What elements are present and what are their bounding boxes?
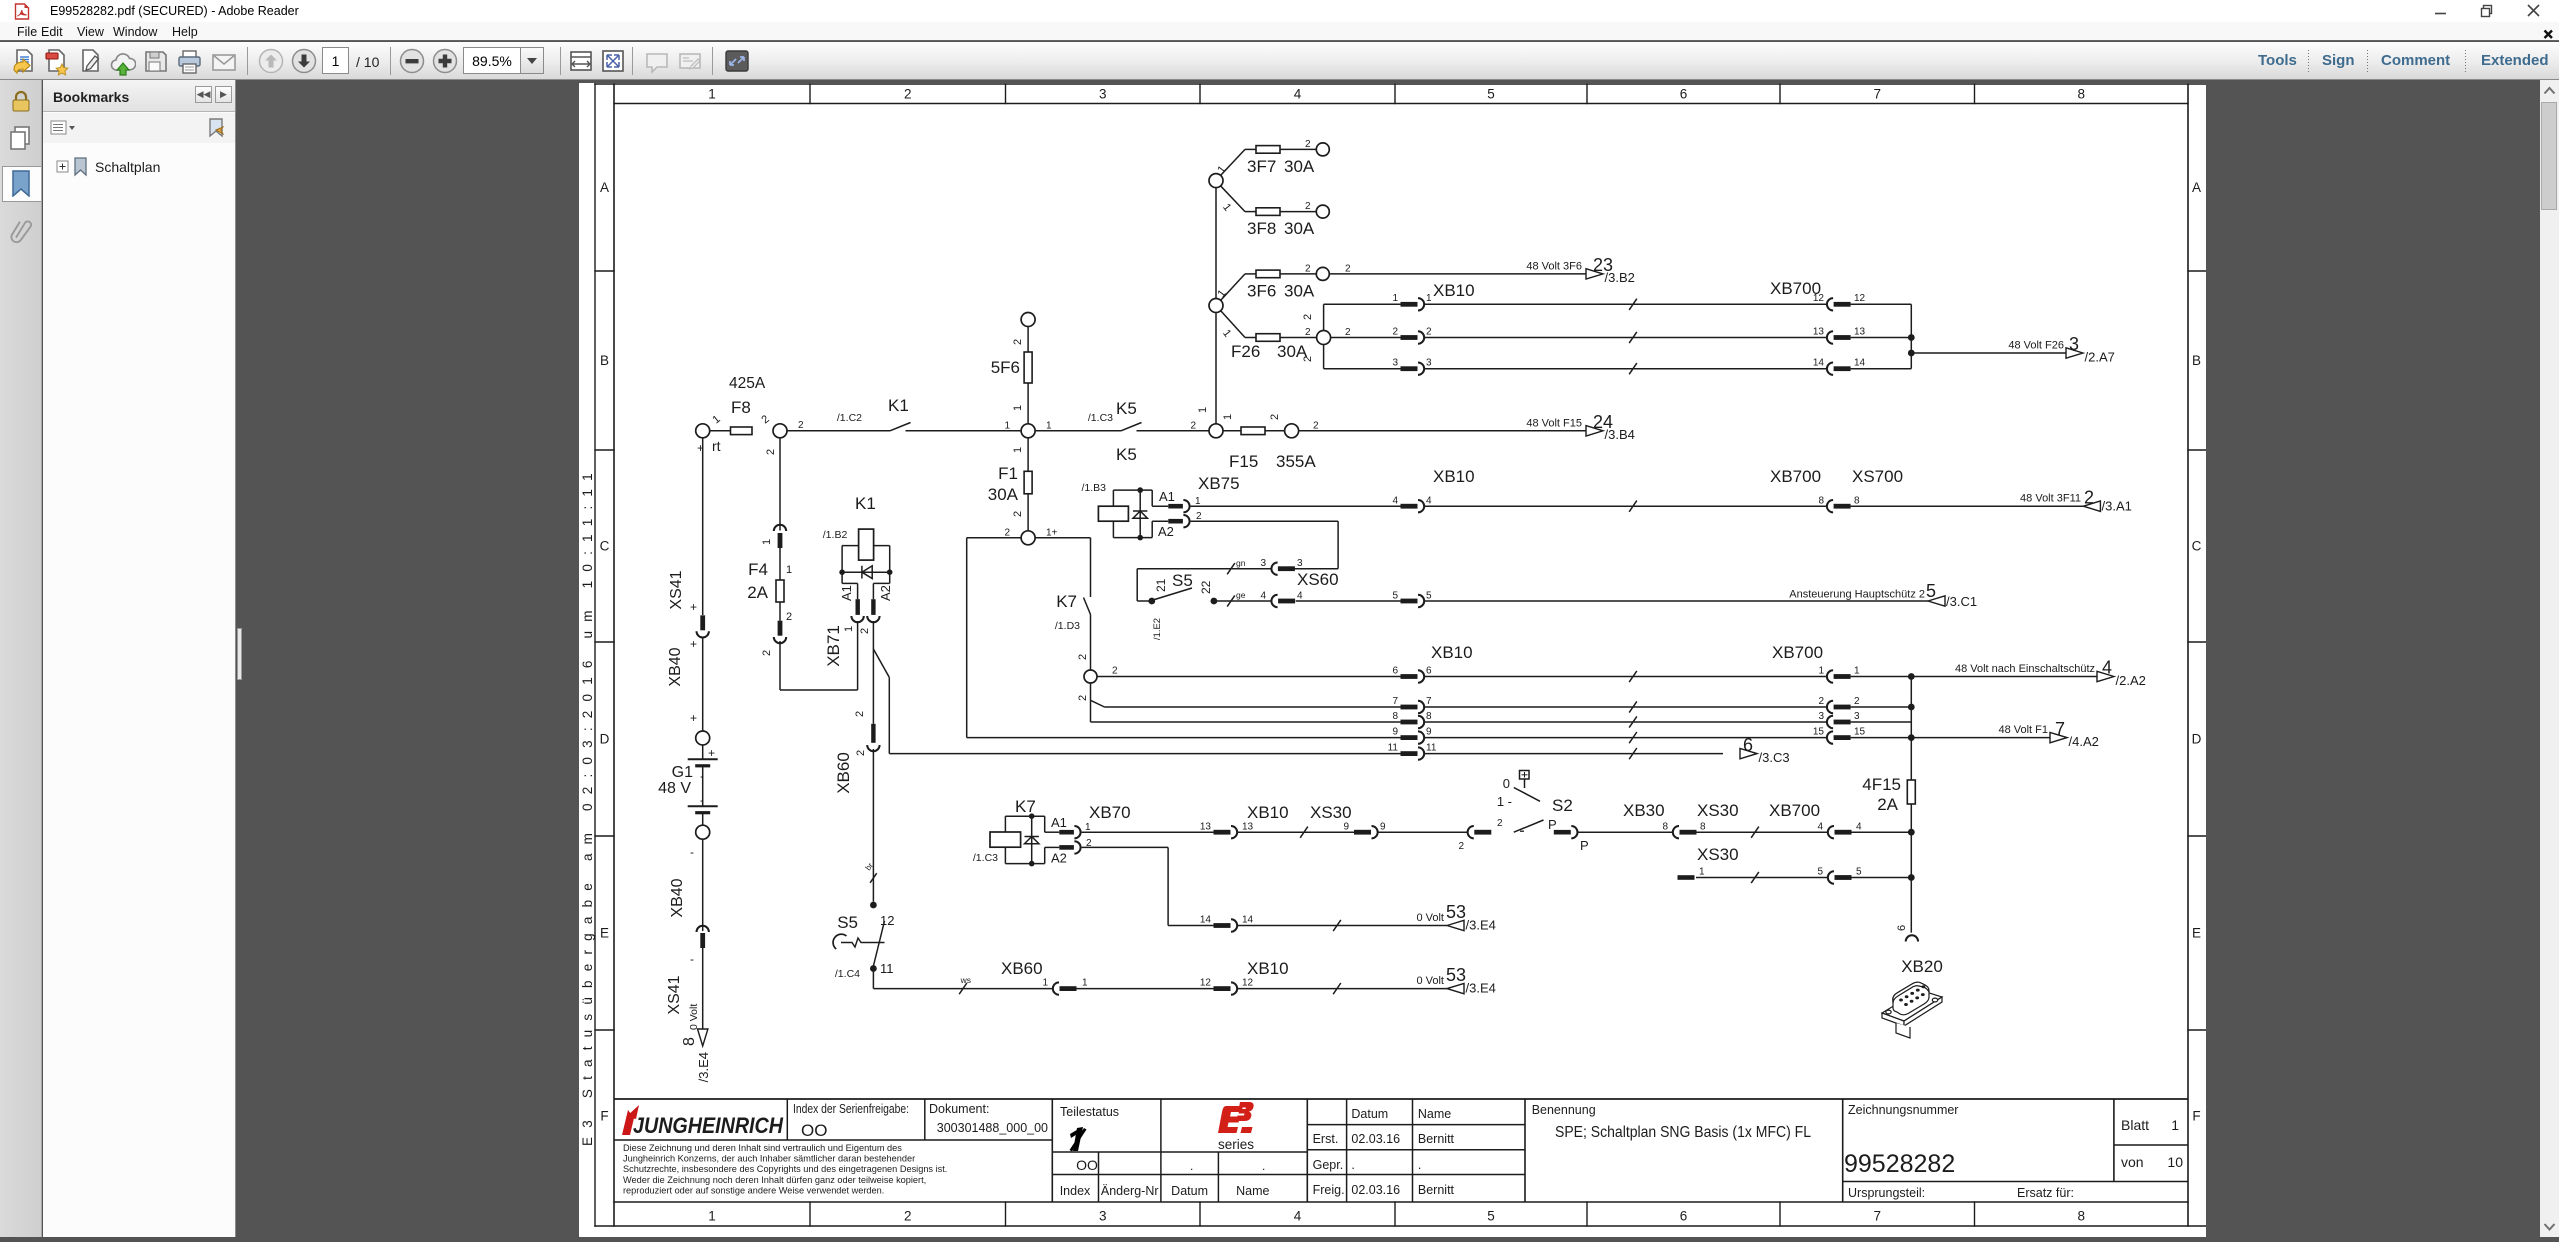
svg-text:1: 1: [1004, 420, 1010, 431]
svg-text:S5: S5: [837, 913, 858, 932]
svg-text:1: 1: [1085, 822, 1091, 833]
svg-text:B: B: [600, 353, 609, 368]
wire - XB71 pin2 split to XB60 chain and row 11: [872, 621, 874, 724]
svg-text:2: 2: [1426, 326, 1432, 337]
svg-text:425A: 425A: [729, 375, 766, 392]
wire - main line to K1 contact: [787, 430, 890, 432]
svg-text:2: 2: [1302, 356, 1314, 362]
svg-text:XB71: XB71: [824, 625, 843, 667]
svg-text:A1: A1: [1159, 489, 1175, 504]
menu bar: [0, 22, 2559, 41]
node - junction on row 6: [1084, 670, 1097, 683]
fuse 3F8 30A with terminal: [1245, 211, 1256, 213]
diode across K7 coil: [1031, 816, 1033, 863]
svg-text:C: C: [600, 539, 610, 554]
svg-text:Datum: Datum: [1171, 1184, 1208, 1198]
svg-text:2: 2: [1818, 696, 1824, 707]
svg-text:11: 11: [880, 961, 894, 976]
svg-text:E: E: [600, 926, 609, 941]
terminal - battery - pole: [696, 825, 710, 839]
svg-text:XS41: XS41: [668, 570, 685, 609]
svg-text:1 -: 1 -: [1497, 794, 1512, 809]
svg-text:2: 2: [761, 650, 773, 656]
svg-text:3: 3: [1854, 711, 1860, 722]
svg-text:XB10: XB10: [1433, 281, 1475, 300]
svg-text:9: 9: [1426, 726, 1432, 737]
bookmarks panel: [43, 80, 236, 1237]
svg-text:53: 53: [1446, 902, 1466, 922]
svg-text:1: 1: [1854, 665, 1860, 676]
svg-text:5F6: 5F6: [991, 358, 1020, 377]
terminal - 5F6 top circle: [1021, 313, 1035, 327]
svg-text:XB70: XB70: [1089, 803, 1131, 822]
svg-text:/1.B3: /1.B3: [1081, 482, 1106, 494]
svg-text:K7: K7: [1015, 797, 1036, 816]
wire - down to S5 with br colour slash: [872, 749, 874, 902]
window title bar: [0, 0, 2559, 22]
svg-text:48 Volt F26: 48 Volt F26: [2008, 340, 2064, 352]
svg-text:48 Volt 3F11: 48 Volt 3F11: [2020, 493, 2081, 505]
svg-text:1+: 1+: [1046, 527, 1058, 538]
svg-text:XB40: XB40: [669, 878, 686, 917]
wire - row 5 to XB10 pin 5: [1296, 600, 1401, 602]
svg-text:A2: A2: [878, 585, 893, 601]
svg-text:1: 1: [1220, 201, 1233, 213]
svg-text:Name: Name: [1418, 1107, 1451, 1121]
svg-text:10: 10: [2167, 1154, 2183, 1170]
svg-text:gn: gn: [1236, 558, 1246, 568]
svg-text:XS30: XS30: [1310, 803, 1352, 822]
svg-text:/1.C4: /1.C4: [835, 968, 860, 980]
svg-text:2: 2: [854, 711, 866, 717]
svg-text:XB20: XB20: [1901, 957, 1943, 976]
svg-text:2: 2: [1077, 695, 1089, 701]
svg-text:1: 1: [1046, 420, 1052, 431]
svg-text:2: 2: [1345, 264, 1351, 275]
svg-text:1: 1: [1082, 978, 1088, 989]
svg-text:1: 1: [1012, 405, 1024, 411]
svg-text:A1: A1: [839, 585, 854, 601]
node - junction with fuse 5F6 branch: [1021, 424, 1035, 438]
wire - row 6 to XB10 pin 6: [1097, 676, 1401, 678]
svg-text:+: +: [708, 746, 715, 760]
svg-text:/1.C2: /1.C2: [837, 412, 862, 424]
svg-text:12: 12: [880, 913, 894, 928]
svg-text:13: 13: [1854, 326, 1866, 337]
svg-text:A1: A1: [1051, 815, 1067, 830]
svg-text:2: 2: [1269, 414, 1281, 420]
svg-text:12: 12: [1242, 978, 1254, 989]
wire - net 48 Volt nach Einschaltschuetz to /2.A2: [1911, 676, 2097, 678]
svg-text:1: 1: [1197, 407, 1209, 413]
wire - to battery: [702, 637, 704, 731]
svg-text:2: 2: [1190, 420, 1196, 431]
svg-text:30A: 30A: [988, 485, 1019, 504]
right scrollbar: [2540, 80, 2559, 1237]
svg-text:-: -: [700, 793, 704, 807]
svg-text:+: +: [690, 711, 697, 725]
svg-text:XS60: XS60: [1297, 570, 1339, 589]
svg-text:+: +: [690, 637, 697, 651]
svg-text:Index: Index: [1060, 1184, 1091, 1198]
svg-text:3: 3: [1818, 711, 1824, 722]
svg-text:4: 4: [1297, 590, 1303, 601]
svg-text:4: 4: [1392, 496, 1398, 507]
svg-text:XB700: XB700: [1772, 643, 1823, 662]
wire - F4 to XB71 pin 1 bottom rail: [779, 641, 781, 690]
svg-text:C: C: [2192, 539, 2202, 554]
svg-text:/1.C3: /1.C3: [1088, 412, 1113, 424]
node - junction circle feeding 3F6/F26: [1209, 299, 1223, 313]
drawing frame and reference grid: [595, 84, 2206, 1226]
svg-text:3: 3: [1099, 1209, 1107, 1224]
wire - S2 to XB30: [1577, 831, 1673, 833]
svg-text:.: .: [1262, 1159, 1265, 1173]
wire - diagonal to fuse 3F6: [1221, 274, 1246, 301]
svg-text:1: 1: [1012, 447, 1024, 453]
svg-text:1: 1: [1818, 665, 1824, 676]
svg-text:Änderg-Nr: Änderg-Nr: [1101, 1184, 1159, 1198]
svg-text:G1: G1: [672, 764, 693, 781]
svg-text:1: 1: [1392, 293, 1398, 304]
svg-text:XB30: XB30: [1623, 801, 1665, 820]
svg-text:/3.C1: /3.C1: [1946, 594, 1977, 609]
svg-text:8: 8: [1700, 822, 1706, 833]
wire - row 4 from XB75 pin1 to XB10 pin 4: [1191, 505, 1401, 507]
svg-text:99528282: 99528282: [1844, 1150, 1955, 1178]
svg-text:11: 11: [1388, 742, 1399, 753]
svg-text:-: -: [690, 952, 694, 966]
svg-text:8: 8: [1426, 711, 1432, 722]
svg-text:Freig.: Freig.: [1313, 1183, 1345, 1197]
svg-text:0 Volt: 0 Volt: [1416, 912, 1444, 924]
wire - row 11 to /3.C3: [889, 753, 1400, 755]
svg-text:2: 2: [1077, 654, 1089, 660]
svg-text:ws: ws: [960, 975, 971, 985]
connector XB71 pins 1/2: [856, 599, 860, 615]
svg-text:K1: K1: [888, 396, 909, 415]
svg-text:5: 5: [1856, 867, 1862, 878]
svg-text:F8: F8: [731, 398, 751, 417]
svg-text:XB700: XB700: [1770, 467, 1821, 486]
svg-text:E3 Statusübergabe am 02:03:201: E3 Statusübergabe am 02:03:2016 um 10:11…: [580, 464, 595, 1146]
svg-text:Schutzrechte, insbesondere des: Schutzrechte, insbesondere des Copyright…: [623, 1164, 947, 1174]
wire - diagonal to fuse 3F7: [1221, 149, 1246, 175]
svg-text:0: 0: [1503, 776, 1510, 791]
svg-text:5: 5: [1392, 590, 1398, 601]
svg-text:1: 1: [708, 87, 716, 102]
svg-text:P: P: [1548, 817, 1557, 832]
svg-text:5: 5: [1487, 1209, 1495, 1224]
svg-text:3: 3: [1260, 558, 1266, 569]
svg-text:5: 5: [1817, 867, 1823, 878]
svg-text:/3.E4: /3.E4: [1466, 981, 1496, 996]
toolbar placeholder: icons injected below: [0, 42, 2559, 80]
svg-text:von: von: [2121, 1154, 2144, 1170]
svg-text:12: 12: [1200, 978, 1212, 989]
svg-text:/1.D3: /1.D3: [1055, 620, 1080, 632]
svg-text:3F8: 3F8: [1247, 219, 1276, 238]
wire - 0 Volt net down to /3.E4 arrow: [702, 948, 704, 1029]
svg-text:.: .: [1351, 1158, 1354, 1172]
connector pin below F4: [778, 621, 783, 636]
svg-text:4: 4: [1294, 1209, 1302, 1224]
svg-text:2: 2: [786, 611, 792, 623]
svg-text:48 Volt F1: 48 Volt F1: [1998, 724, 2048, 736]
svg-text:ge: ge: [1236, 590, 1246, 600]
svg-text:8: 8: [681, 1037, 698, 1046]
battery G1 48 V cells: [702, 745, 704, 759]
svg-text:K1: K1: [855, 494, 876, 513]
svg-text:9: 9: [1380, 822, 1386, 833]
svg-text:12: 12: [1813, 293, 1825, 304]
switch S5 /1.E2 contact 21-22: [1148, 598, 1155, 605]
wire - net 48 Volt 3F6 to /3.B2: [1329, 273, 1586, 275]
svg-text:1: 1: [708, 1209, 716, 1224]
svg-text:/4.A2: /4.A2: [2069, 734, 2099, 749]
svg-text:8: 8: [1854, 496, 1860, 507]
svg-text:2: 2: [1196, 511, 1202, 522]
wire - XS60 pin3 left to S5 branch with gn slash: [1137, 568, 1271, 570]
svg-text:4: 4: [1426, 496, 1432, 507]
svg-text:7: 7: [1873, 87, 1881, 102]
wire - net 0 Volt row 12 to /3.E4: [1237, 988, 1447, 990]
wire - diagonal to fuse 3F8: [1221, 186, 1246, 212]
panel splitter handle: [237, 628, 242, 680]
wire - to S2: [1378, 831, 1468, 833]
svg-text:XS41: XS41: [666, 975, 683, 1014]
svg-text:7: 7: [1392, 696, 1398, 707]
wire - to XS60 pin 4 with ge slash: [1214, 600, 1272, 602]
svg-text:02.03.16: 02.03.16: [1351, 1183, 1400, 1197]
svg-text:rt: rt: [712, 438, 721, 454]
svg-text:E: E: [2192, 926, 2201, 941]
diode across K1 coil: [842, 571, 890, 573]
svg-text:Name: Name: [1236, 1184, 1269, 1198]
svg-text:/3.E4: /3.E4: [696, 1052, 711, 1082]
svg-text:300301488_000_00: 300301488_000_00: [937, 1121, 1048, 1135]
wire - right bus joining pins 12-14: [1910, 304, 1912, 368]
svg-text:/2.A2: /2.A2: [2116, 673, 2146, 688]
svg-text:22: 22: [1199, 580, 1213, 594]
svg-text:8: 8: [2077, 1209, 2085, 1224]
svg-text:XB10: XB10: [1247, 803, 1289, 822]
svg-text:Diese Zeichnung und deren Inha: Diese Zeichnung und deren Inhalt sind ve…: [623, 1143, 902, 1153]
svg-text:Gepr.: Gepr.: [1313, 1158, 1344, 1172]
svg-text:2: 2: [1458, 841, 1464, 852]
svg-text:/3.C3: /3.C3: [1759, 750, 1790, 765]
svg-text:13: 13: [1813, 326, 1825, 337]
svg-text:14: 14: [1200, 915, 1212, 926]
svg-text:Bernitt: Bernitt: [1418, 1132, 1455, 1146]
svg-text:F: F: [2192, 1109, 2200, 1124]
svg-text:1: 1: [1042, 978, 1048, 989]
wire - vertical bus to 4F15: [1910, 677, 1912, 933]
svg-text:F26: F26: [1231, 342, 1260, 361]
svg-text:14: 14: [1854, 358, 1866, 369]
svg-text:1: 1: [710, 413, 722, 426]
svg-text:2: 2: [904, 87, 912, 102]
fuse 3F6 30A with terminal: [1245, 273, 1256, 275]
svg-text:Jungheinrich Konzerns, der auc: Jungheinrich Konzerns, der auch Inhaber …: [623, 1154, 915, 1164]
svg-text:Datum: Datum: [1351, 1107, 1388, 1121]
svg-text:0 Volt: 0 Volt: [688, 1004, 700, 1030]
wire - row 13 from XB70 pin1: [1082, 831, 1214, 833]
svg-text:11: 11: [1426, 742, 1437, 753]
svg-text:OO: OO: [1076, 1157, 1098, 1173]
svg-text:4F15: 4F15: [1862, 775, 1901, 794]
svg-text:6: 6: [1680, 87, 1688, 102]
wire - net 0 Volt row 14 to /3.E4: [1237, 925, 1447, 927]
svg-text:XB60: XB60: [1001, 959, 1043, 978]
svg-text:/3.E4: /3.E4: [1466, 918, 1496, 933]
svg-text:2: 2: [1854, 696, 1860, 707]
svg-text:2: 2: [765, 449, 777, 455]
svg-text:XS30: XS30: [1697, 801, 1739, 820]
svg-text:4: 4: [1817, 822, 1823, 833]
svg-text:21: 21: [1154, 578, 1168, 592]
fuse 3F7 30A with terminal: [1245, 148, 1256, 150]
svg-text:30A: 30A: [1284, 157, 1315, 176]
svg-text:/1.C3: /1.C3: [973, 852, 998, 864]
wire - row 7 to XB10 pin 7: [1105, 706, 1401, 708]
diode across K5 coil: [1139, 490, 1141, 537]
svg-text:F1: F1: [998, 464, 1018, 483]
svg-text:1: 1: [761, 539, 773, 545]
svg-text:3: 3: [1426, 358, 1432, 369]
svg-text:2: 2: [1497, 818, 1503, 829]
svg-text:2: 2: [1305, 201, 1311, 212]
svg-text:Zeichnungsnummer: Zeichnungsnummer: [1848, 1103, 1958, 1117]
wire - XB71 pin1 down to bottom rail: [857, 621, 859, 690]
svg-text:F: F: [600, 1109, 608, 1124]
svg-text:2: 2: [1305, 264, 1311, 275]
node - 1+ distribution junction: [1021, 531, 1035, 545]
svg-text:9: 9: [1343, 822, 1349, 833]
svg-text:Schaltplan: Schaltplan: [95, 159, 160, 175]
left tool rail: [0, 80, 42, 1237]
svg-text:XS30: XS30: [1697, 845, 1739, 864]
svg-text:1: 1: [2171, 1117, 2179, 1133]
svg-text:JUNGHEINRICH: JUNGHEINRICH: [633, 1113, 784, 1138]
svg-text:XB700: XB700: [1769, 801, 1820, 820]
title block grid: [614, 1099, 2188, 1202]
svg-text:48 Volt F15: 48 Volt F15: [1526, 418, 1582, 430]
svg-text:48 Volt nach Einschaltschütz: 48 Volt nach Einschaltschütz: [1955, 663, 2095, 675]
svg-text:A2: A2: [1158, 524, 1174, 539]
wire - from F8 junction down to F4: [779, 438, 781, 531]
svg-text:Erst.: Erst.: [1313, 1132, 1339, 1146]
svg-text:13: 13: [1200, 822, 1212, 833]
svg-text:P: P: [1580, 838, 1589, 853]
PDF page: [579, 83, 2206, 1237]
svg-text:2: 2: [1112, 666, 1118, 677]
svg-text:1: 1: [1220, 327, 1233, 339]
svg-text:0 Volt: 0 Volt: [1416, 975, 1444, 987]
logo e3 series: [1218, 1102, 1254, 1133]
svg-text:2: 2: [759, 413, 771, 426]
svg-text:3: 3: [1392, 358, 1398, 369]
node - F26 output junction with bracket to XB10 pins 1-3: [1317, 331, 1331, 345]
svg-text:5: 5: [1487, 87, 1495, 102]
svg-text:8: 8: [1662, 822, 1668, 833]
node - junction after F15: [1285, 424, 1299, 438]
svg-text:2: 2: [859, 628, 871, 634]
key switch S2 with P contact: [1468, 826, 1474, 838]
terminal - battery + pole: [696, 731, 710, 745]
svg-text:6: 6: [1426, 665, 1432, 676]
svg-text:48 V: 48 V: [658, 780, 691, 797]
wire - net Ansteuerung Hauptschuetz 2 from /3.C1: [1424, 600, 1928, 602]
connector XS41/XB40 upper pin pair: [700, 615, 705, 630]
svg-text:A2: A2: [1051, 851, 1067, 866]
svg-text:XS700: XS700: [1852, 467, 1903, 486]
svg-text:3: 3: [1099, 87, 1107, 102]
wire - battery minus down to XB40 pin: [702, 839, 704, 931]
wire - K5 coil terminals A1/A2: [1151, 490, 1153, 506]
svg-text:Bernitt: Bernitt: [1418, 1183, 1455, 1197]
svg-text:53: 53: [1446, 965, 1466, 985]
svg-text:S2: S2: [1552, 796, 1573, 815]
svg-text:7: 7: [1426, 696, 1432, 707]
svg-text:1: 1: [1195, 496, 1201, 507]
svg-text:2: 2: [1302, 314, 1314, 320]
svg-text:4: 4: [1294, 87, 1302, 102]
svg-text:K5: K5: [1116, 399, 1137, 418]
wire - 1+ rail left and down to row 9: [967, 537, 1021, 539]
wire - vertical feeder from main line up to fuse group: [1215, 187, 1217, 431]
svg-text:2: 2: [904, 1209, 912, 1224]
svg-text:B: B: [2192, 353, 2201, 368]
svg-text:F4: F4: [748, 560, 768, 579]
svg-text:8: 8: [1818, 496, 1824, 507]
svg-text:XB40: XB40: [667, 647, 684, 686]
wire - net 48 Volt F15 to /3.B4: [1299, 430, 1586, 432]
svg-text:5: 5: [1426, 590, 1432, 601]
fuse F26 30A: [1245, 337, 1256, 339]
wire - diagonal to fuse F26: [1221, 311, 1246, 338]
svg-text:Ursprungsteil:: Ursprungsteil:: [1848, 1186, 1925, 1200]
svg-text:Dokument:: Dokument:: [929, 1102, 989, 1116]
wire - XB75 pin2 route to XS60 pin 3: [1191, 520, 1339, 522]
svg-text:A: A: [2192, 180, 2201, 195]
svg-text:12: 12: [1854, 293, 1866, 304]
svg-text:/3.A1: /3.A1: [2102, 499, 2132, 514]
svg-text:+: +: [690, 600, 697, 614]
node - junction joining fuse-group feeder to main line: [1209, 424, 1223, 438]
svg-text:XB10: XB10: [1247, 959, 1289, 978]
svg-text:8: 8: [1392, 711, 1398, 722]
svg-text:A: A: [600, 180, 609, 195]
svg-text:2: 2: [855, 750, 867, 756]
svg-text:2A: 2A: [1877, 795, 1898, 814]
svg-text:2: 2: [1012, 511, 1024, 517]
svg-text:/3.B2: /3.B2: [1605, 270, 1635, 285]
svg-text:1: 1: [843, 626, 855, 632]
fuse 5F6: [1027, 327, 1029, 353]
svg-text:02.03.16: 02.03.16: [1351, 1132, 1400, 1146]
svg-text:6: 6: [1896, 925, 1908, 931]
svg-text:2: 2: [1305, 139, 1311, 150]
connector pin above F4: [774, 525, 786, 531]
svg-text:7: 7: [1873, 1209, 1881, 1224]
svg-text:2: 2: [1305, 327, 1311, 338]
svg-text:2: 2: [1345, 327, 1351, 338]
wire - 1+ rail right to K7 contact: [1035, 537, 1090, 539]
svg-text:9: 9: [1392, 726, 1398, 737]
svg-text:/1.B2: /1.B2: [823, 529, 848, 541]
svg-text:/1.E2: /1.E2: [1152, 618, 1163, 640]
